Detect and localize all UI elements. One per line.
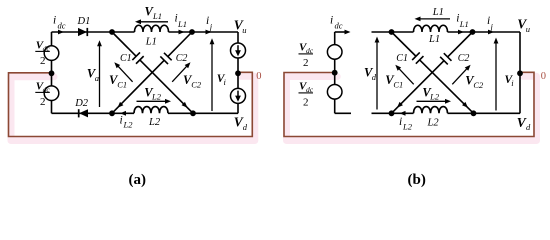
svg-text:C1: C1 bbox=[396, 53, 408, 64]
svg-text:C1: C1 bbox=[120, 53, 132, 64]
svg-text:i: i bbox=[206, 15, 209, 27]
svg-text:dc: dc bbox=[43, 44, 51, 53]
svg-text:C1: C1 bbox=[117, 79, 127, 89]
svg-text:dc: dc bbox=[43, 85, 51, 94]
svg-text:C2: C2 bbox=[176, 53, 188, 64]
svg-text:L2: L2 bbox=[402, 122, 413, 132]
svg-text:u: u bbox=[242, 25, 246, 35]
svg-text:L1: L1 bbox=[145, 36, 157, 47]
svg-text:D2: D2 bbox=[74, 98, 89, 109]
svg-text:i: i bbox=[53, 15, 56, 27]
svg-text:a: a bbox=[95, 73, 99, 83]
svg-text:2: 2 bbox=[303, 96, 309, 108]
svg-text:L1: L1 bbox=[459, 19, 469, 29]
svg-text:2: 2 bbox=[40, 96, 46, 108]
svg-text:C1: C1 bbox=[393, 79, 403, 89]
svg-text:dc: dc bbox=[58, 21, 66, 31]
svg-text:L2: L2 bbox=[151, 92, 162, 102]
svg-text:C2: C2 bbox=[473, 80, 484, 90]
svg-text:0: 0 bbox=[256, 71, 261, 82]
svg-text:L2: L2 bbox=[148, 117, 161, 128]
svg-text:2: 2 bbox=[40, 55, 46, 67]
svg-text:0: 0 bbox=[541, 71, 546, 82]
svg-text:i: i bbox=[120, 114, 123, 126]
svg-text:C2: C2 bbox=[458, 53, 470, 64]
svg-text:2: 2 bbox=[303, 57, 309, 69]
svg-text:u: u bbox=[526, 24, 530, 34]
svg-text:L1: L1 bbox=[428, 34, 440, 45]
svg-text:L1: L1 bbox=[432, 7, 444, 18]
svg-text:d: d bbox=[243, 122, 248, 132]
svg-text:d: d bbox=[372, 72, 377, 82]
svg-text:L2: L2 bbox=[427, 117, 440, 128]
svg-text:L1: L1 bbox=[177, 19, 187, 29]
svg-text:L2: L2 bbox=[123, 120, 134, 130]
svg-text:dc: dc bbox=[335, 21, 343, 31]
svg-text:dc: dc bbox=[306, 46, 314, 55]
svg-text:D1: D1 bbox=[77, 16, 91, 27]
svg-text:(b): (b) bbox=[408, 172, 426, 188]
svg-text:i: i bbox=[399, 116, 402, 128]
svg-text:i: i bbox=[330, 15, 333, 27]
svg-text:L2: L2 bbox=[429, 92, 440, 102]
svg-text:(a): (a) bbox=[129, 172, 147, 188]
svg-text:L1: L1 bbox=[152, 11, 162, 21]
svg-text:dc: dc bbox=[306, 85, 314, 94]
svg-text:C2: C2 bbox=[191, 79, 202, 89]
